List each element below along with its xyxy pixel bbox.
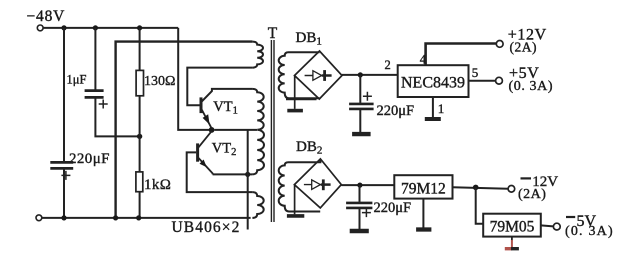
- capacitor C1 220uF: [50, 162, 73, 180]
- wire: DB2 output to U2: [341, 184, 394, 186]
- terminal -5V: [553, 223, 560, 230]
- transformer T core: [271, 40, 274, 222]
- node: U2 out / U3 branch: [473, 185, 479, 191]
- node: DB2 out / C4: [357, 183, 362, 188]
- wire: U3 output to -5V: [541, 225, 554, 226]
- ground: DB2 negative: [287, 185, 304, 216]
- IC U3 79M05: [483, 214, 541, 237]
- svg-text:1kΩ: 1kΩ: [144, 177, 171, 193]
- terminal: -48V input top: [37, 25, 43, 31]
- wire: R1 to node: [139, 96, 141, 137]
- IC U1 NEC8439: [398, 65, 469, 97]
- node: top rail / C1: [61, 25, 66, 30]
- wire: pin 5 to +5V: [469, 80, 496, 82]
- transformer secondary winding S1: [279, 52, 320, 98]
- transistor VT1: [201, 97, 212, 128]
- wire: pin 1 to ground: [432, 97, 434, 117]
- capacitor C2 1uF: [85, 91, 108, 109]
- wire: top rail corner down to VT node: [178, 28, 211, 130]
- wire: VT1 collector to W2 top: [202, 89, 253, 102]
- ground: C3: [352, 132, 371, 136]
- node: bottom rail / C1: [61, 215, 66, 220]
- IC U2 79M12: [394, 175, 452, 198]
- wire: rail to R1: [139, 28, 141, 71]
- ground: U2: [416, 227, 431, 231]
- wire: U2 ground: [422, 199, 424, 228]
- ground: DB1 negative: [287, 76, 303, 111]
- node: VT1 emitter / VT2 collector: [209, 127, 215, 133]
- wire: VT2 base loop from W3 top: [187, 152, 253, 192]
- DB1 internal diode: [305, 70, 332, 81]
- wire: U2 output to -12V: [453, 187, 509, 189]
- resistor R1 130ohm: [136, 70, 143, 95]
- svg-text:79M12: 79M12: [401, 181, 446, 198]
- ground: U3 (red printed): [505, 237, 519, 249]
- ground: U1: [425, 117, 441, 121]
- svg-text:2: 2: [385, 58, 391, 72]
- node: center-tap vertical crosses emitter wire: [245, 172, 250, 177]
- DB2 internal diode: [304, 179, 331, 190]
- transistor VT2: [198, 131, 213, 174]
- wire: pin 4 to +12V: [426, 44, 497, 66]
- svg-text:NEC8439: NEC8439: [401, 74, 465, 91]
- svg-text:−48V: −48V: [27, 8, 66, 25]
- svg-text:130Ω: 130Ω: [144, 74, 175, 89]
- terminal +12V: [496, 41, 503, 48]
- wire: rail down to C1: [63, 28, 65, 161]
- terminal +5V: [496, 77, 503, 84]
- transformer T primary winding W2 (main, tapped): [252, 89, 264, 174]
- svg-text:220μF: 220μF: [377, 103, 415, 119]
- ground: C4: [350, 229, 369, 233]
- wire: primary center tap branch: [215, 130, 258, 230]
- svg-text:79M05: 79M05: [490, 219, 535, 236]
- terminal -12V: [508, 186, 515, 193]
- label -12V: [521, 174, 559, 190]
- bridge rectifier DB1: [295, 51, 343, 99]
- svg-text:5: 5: [472, 65, 479, 80]
- transformer T primary winding W3 (feedback): [252, 192, 264, 218]
- resistor R2 1kohm: [136, 172, 143, 192]
- node: bottom rail / R2: [136, 215, 141, 220]
- svg-text:(2A): (2A): [518, 187, 546, 202]
- svg-text:1: 1: [438, 101, 445, 116]
- wire: rail down to C2: [94, 28, 96, 90]
- capacitor C4 220uF: [346, 185, 372, 229]
- bridge rectifier DB2: [294, 159, 341, 208]
- capacitor C3 220uF: [349, 75, 374, 132]
- wire: DB1 output to U1: [342, 74, 398, 76]
- wire: C1 to bottom rail: [63, 170, 65, 218]
- svg-text:1μF: 1μF: [67, 73, 87, 87]
- node: bottom rail / center-tap feed: [113, 215, 118, 220]
- node: top rail / R1: [137, 25, 142, 30]
- svg-text:UB406×2: UB406×2: [172, 219, 241, 236]
- svg-text:(0. 3A): (0. 3A): [565, 224, 614, 239]
- wire: VT2 emitter to W2 bottom: [213, 173, 253, 175]
- svg-text:220μF: 220μF: [374, 200, 412, 216]
- svg-text:VT2: VT2: [212, 141, 237, 159]
- svg-text:(2A): (2A): [510, 40, 538, 55]
- label -5V: [566, 213, 597, 230]
- wire: VT1 base loop from W1 bottom: [187, 68, 252, 106]
- wire: node to R2: [139, 136, 141, 172]
- terminal: -48V input bottom: [36, 215, 42, 221]
- wire: R2 to bottom rail: [139, 192, 141, 218]
- wire: S1 lower lead (thick): [286, 98, 317, 101]
- node: C2 / R1 / R2 junction: [137, 134, 142, 139]
- wire: branch to U3 input: [476, 187, 484, 223]
- svg-text:DB2: DB2: [296, 139, 322, 157]
- svg-text:(0. 3A): (0. 3A): [509, 79, 554, 94]
- svg-text:VT1: VT1: [213, 99, 238, 117]
- svg-text:4: 4: [420, 53, 427, 67]
- node: DB1 out / C3: [358, 72, 363, 77]
- node: top rail / C2: [93, 25, 98, 30]
- svg-text:T: T: [268, 25, 278, 42]
- wire: bottom rail: [42, 217, 251, 219]
- transformer T primary winding W1 (feedback): [252, 42, 263, 68]
- wire: C2 bottom to R1/R2 node: [95, 99, 137, 137]
- wire: center-tap feed (vertical x=115.6 and horizontal y=41.6 to winding W1): [116, 42, 253, 218]
- svg-text:DB1: DB1: [296, 30, 322, 48]
- transformer secondary winding S2: [279, 159, 321, 211]
- wire: top -48V rail: [43, 27, 178, 29]
- svg-text:220μF: 220μF: [69, 151, 110, 167]
